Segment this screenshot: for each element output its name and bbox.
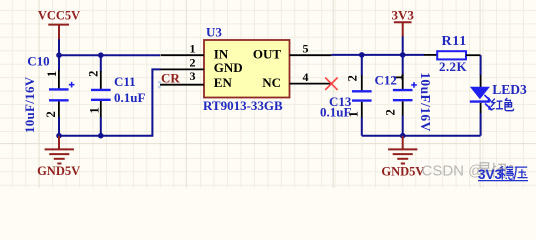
watermark CJK glyphs [478, 163, 513, 178]
link text 3V3稳压 [478, 167, 528, 182]
svg-text:5: 5 [303, 41, 309, 55]
LED LED3 [470, 75, 527, 136]
wire top rail right [331, 54, 424, 56]
wire bottom rail left to GND pin [59, 69, 161, 135]
pin 5 OUT [290, 54, 332, 56]
junction at C10 top [56, 52, 62, 58]
svg-text:1: 1 [45, 71, 59, 77]
junction at C10 bottom [56, 133, 62, 139]
svg-text:OUT: OUT [253, 47, 282, 62]
svg-text:GND: GND [214, 60, 243, 75]
wire 3V3 stem [402, 36, 404, 55]
稳压 CJK glyphs [499, 166, 527, 180]
junction at C11 top [98, 52, 104, 58]
power port VCC5V [38, 9, 80, 40]
svg-text:LED3: LED3 [492, 82, 527, 97]
svg-text:4: 4 [303, 70, 309, 84]
svg-text:R11: R11 [442, 34, 467, 49]
svg-text:RT9013-33GB: RT9013-33GB [203, 98, 283, 113]
svg-text:EN: EN [214, 75, 233, 90]
svg-text:10uF/16V: 10uF/16V [418, 72, 433, 131]
svg-text:0.1uF: 0.1uF [320, 105, 351, 120]
svg-text:2: 2 [190, 55, 196, 69]
capacitor C10 [22, 53, 74, 135]
no-ERC marker [325, 78, 337, 90]
sheet background [0, 0, 536, 188]
svg-text:3: 3 [190, 69, 196, 83]
svg-text:3V3: 3V3 [478, 167, 503, 182]
capacitor C12 [375, 55, 433, 136]
pin 2 GND [161, 68, 205, 70]
svg-text:10uF/16V: 10uF/16V [22, 76, 37, 133]
junction at C11 bottom [98, 133, 104, 139]
svg-text:1: 1 [190, 41, 196, 55]
svg-text:2: 2 [384, 109, 398, 115]
svg-text:CSDN @: CSDN @ [422, 163, 484, 180]
wire bottom rail right [362, 135, 481, 137]
svg-text:2: 2 [44, 111, 58, 117]
svg-text:2: 2 [346, 75, 360, 81]
junction at 3V3 node [400, 52, 406, 58]
svg-text:2.2K: 2.2K [439, 59, 467, 74]
svg-text:1: 1 [88, 107, 102, 113]
resistor R11 [424, 34, 481, 74]
capacitor C11 [86, 55, 145, 136]
svg-text:C10: C10 [27, 53, 49, 68]
junction at C13 top [359, 52, 365, 58]
junction at C12 bottom / GND5V [400, 133, 406, 139]
pin 4 NC [290, 83, 332, 85]
watermark CSDN [422, 163, 484, 180]
svg-text:GND5V: GND5V [381, 164, 424, 178]
snap marks at EN pin end [158, 81, 161, 84]
ground GND5V right [381, 136, 424, 179]
wire VCC5V stem lower part [58, 39, 60, 55]
wire R11 to LED [480, 55, 482, 75]
pin 3 EN [160, 84, 204, 86]
svg-text:2: 2 [86, 71, 100, 77]
svg-text:C11: C11 [114, 74, 136, 89]
power port 3V3 [392, 7, 415, 37]
LED3 label 红色 [491, 98, 514, 111]
svg-text:GND5V: GND5V [37, 164, 80, 178]
pin 1 IN [161, 54, 205, 56]
wire top rail left [59, 54, 160, 56]
svg-text:U3: U3 [206, 25, 222, 40]
svg-text:NC: NC [262, 75, 281, 90]
svg-text:3V3: 3V3 [392, 7, 415, 22]
ground GND5V left [37, 136, 80, 178]
capacitor C13 [320, 55, 372, 136]
svg-text:C12: C12 [375, 73, 397, 88]
regulator U3 RT9013-33GB [203, 25, 290, 113]
svg-text:0.1uF: 0.1uF [114, 90, 145, 105]
svg-text:VCC5V: VCC5V [38, 9, 80, 23]
svg-text:CR: CR [161, 71, 180, 86]
